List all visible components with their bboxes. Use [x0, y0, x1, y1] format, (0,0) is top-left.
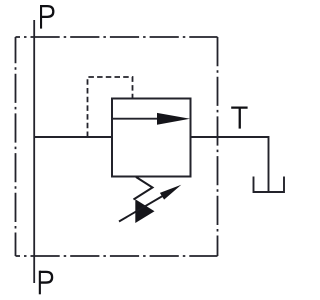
wire valve outlet to T [191, 137, 269, 192]
wire P to valve inlet [34, 136, 112, 138]
spring (zigzag) [134, 177, 153, 200]
flow path arrowhead inside valve [157, 113, 190, 125]
port line P (vertical) [33, 20, 35, 283]
flow path line inside valve [112, 118, 160, 120]
label P (bottom) [40, 271, 52, 295]
label P (top) [41, 5, 53, 29]
tank symbol [254, 177, 285, 193]
enclosure boundary bottom edge (dash-dot) [16, 255, 218, 257]
adjustment arrow head (slender) [160, 185, 181, 200]
adjustment arrow big head [135, 199, 154, 223]
enclosure boundary top edge (dash-dot) [16, 36, 218, 38]
enclosure boundary right edge (dash-dot) [217, 37, 219, 256]
relief valve body V1 (square) [112, 99, 191, 177]
adjustment arrow shaft (diagonal) [119, 194, 166, 222]
label T [231, 108, 247, 129]
pilot line (dashed) [88, 77, 133, 137]
enclosure boundary left edge (dash-dot) [15, 37, 17, 256]
